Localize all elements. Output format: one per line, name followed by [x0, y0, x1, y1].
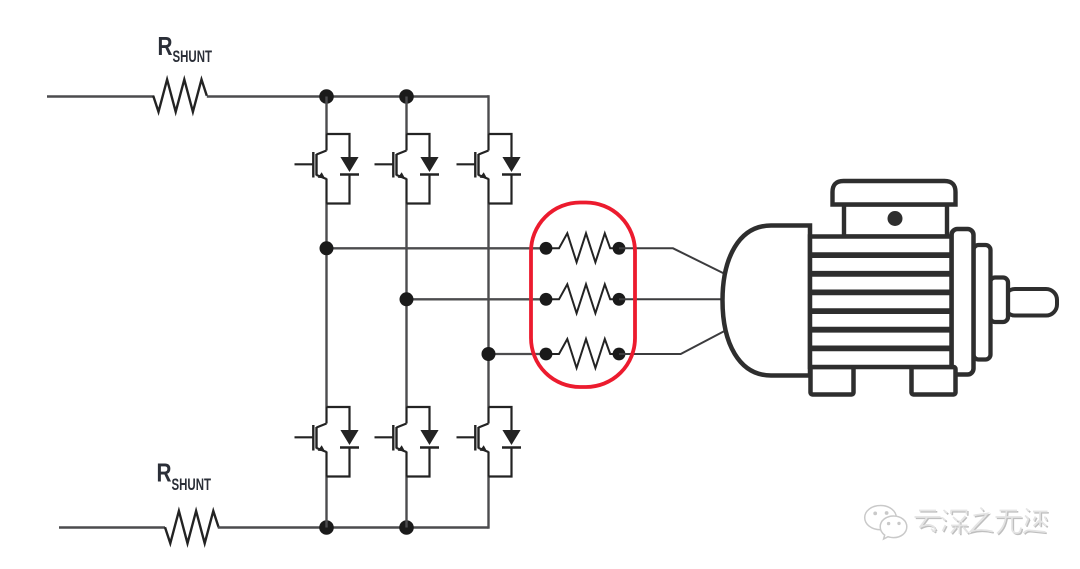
glyph 深 [942, 510, 968, 534]
wechat logo big bubble [865, 506, 897, 532]
svg-text:SHUNT: SHUNT [173, 47, 213, 66]
wire leg2 upper [405, 97, 407, 135]
motor ribs [812, 255, 950, 348]
motor foot right [912, 367, 956, 395]
wire leg3 lower [487, 477, 489, 529]
wire phase B to motor [619, 298, 725, 300]
transistor Q6 (bottom leg3) [457, 407, 522, 477]
svg-text:SHUNT: SHUNT [172, 475, 212, 494]
wire bottom-left [59, 526, 165, 529]
transistor Q3 (top leg3) [457, 134, 522, 204]
node dot bottom rail leg2 [399, 520, 414, 535]
svg-text:R: R [157, 460, 172, 488]
motor terminal dot [888, 211, 903, 226]
resistor R_SHUNT bottom [165, 511, 219, 543]
glyph 迹 [1024, 509, 1048, 534]
motor foot left [811, 367, 854, 395]
node dot top rail leg1 [319, 89, 334, 104]
watermark text 云深之无迹 (approximated strokes) [916, 509, 1049, 536]
wire leg1 middle [325, 204, 327, 408]
wire leg1 lower [325, 477, 327, 528]
motor body [810, 237, 952, 368]
wire leg3 middle [487, 204, 489, 408]
glyph 云 [915, 511, 941, 532]
wire phase C to motor [619, 331, 725, 354]
node dot bottom rail leg1 [319, 520, 334, 535]
wire leg3 upper [487, 95, 489, 134]
wire top rail [207, 95, 489, 98]
wire phase C [489, 353, 547, 355]
transistor Q4 (bottom leg1) [295, 407, 360, 477]
wire phase A to motor [619, 248, 724, 273]
wire phase B [407, 298, 547, 300]
motor end ring 2 [974, 245, 991, 360]
wire bottom rail [218, 526, 489, 529]
node dot phase A [320, 241, 334, 255]
wire leg1 upper [325, 97, 327, 135]
node dot top rail leg2 [399, 89, 414, 104]
transistor Q2 (top leg2) [375, 134, 440, 204]
resistor phase C winding [540, 339, 626, 368]
highlight capsule (red) [531, 203, 635, 388]
motor bell housing [723, 226, 811, 376]
wire top-left [47, 95, 154, 98]
glyph 无 [996, 511, 1022, 534]
motor terminal cap [833, 181, 956, 205]
motor shaft hub [990, 278, 1008, 323]
svg-text:R: R [158, 33, 173, 61]
motor shaft [1004, 289, 1057, 316]
transistor Q1 (top leg1) [295, 134, 360, 204]
wire phase A [327, 247, 547, 249]
transistor Q5 (bottom leg2) [375, 407, 440, 477]
node dot phase C [482, 347, 496, 361]
wechat logo small bubble [880, 516, 907, 539]
wire leg2 lower [405, 477, 407, 528]
motor end ring 1 [952, 229, 974, 375]
node dot phase B [400, 292, 414, 306]
resistor phase B winding [540, 284, 626, 313]
resistor R_SHUNT top [153, 80, 207, 112]
motor terminal box [844, 205, 947, 237]
wire leg2 middle [405, 204, 407, 408]
glyph 之 [971, 508, 993, 532]
resistor phase A winding [540, 233, 626, 262]
